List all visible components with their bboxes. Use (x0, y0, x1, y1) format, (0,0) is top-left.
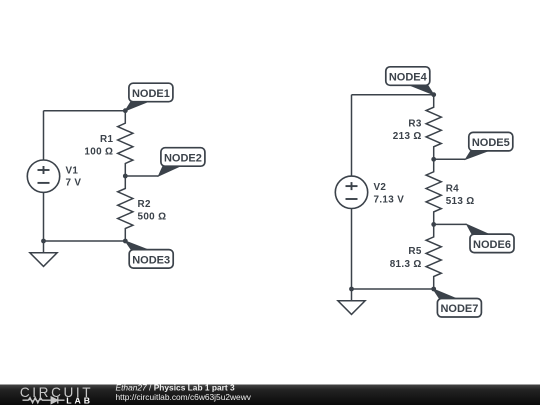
ground right (338, 289, 365, 314)
node junction NODE4 (431, 92, 436, 97)
wire bottom rail right (352, 288, 434, 290)
wire NODE2 stub (125, 175, 158, 177)
label R3 value (393, 118, 422, 142)
resistor R1 (118, 111, 133, 176)
label R2 value (138, 199, 167, 222)
voltage source V2 (335, 176, 367, 208)
svg-text:R3: R3 (408, 118, 421, 129)
svg-text:Ethan27 / Physics Lab 1 part 3: Ethan27 / Physics Lab 1 part 3 (116, 382, 236, 392)
svg-text:V1: V1 (66, 165, 79, 176)
node junction ground-left (41, 239, 46, 244)
label V1 value (66, 165, 82, 188)
node junction R4-R5 (431, 222, 436, 227)
node NODE2 (159, 148, 205, 176)
ground (30, 241, 57, 266)
svg-text:LAB: LAB (66, 395, 93, 405)
svg-text:R4: R4 (446, 183, 459, 194)
resistor R3 (426, 95, 441, 160)
svg-text:81.3 Ω: 81.3 Ω (390, 259, 422, 270)
wire NODE6 stub (434, 223, 467, 225)
svg-text:NODE1: NODE1 (132, 88, 170, 100)
node junction NODE7 (431, 287, 436, 292)
svg-text:R2: R2 (138, 199, 151, 210)
resistor R5 (426, 224, 441, 289)
svg-text:513 Ω: 513 Ω (446, 196, 475, 207)
svg-text:V2: V2 (374, 182, 387, 193)
footer title text (116, 382, 252, 402)
label R1 value (84, 134, 113, 158)
label R4 value (446, 183, 475, 206)
svg-text:NODE7: NODE7 (440, 303, 478, 315)
resistor R2 (118, 176, 133, 241)
resistor R4 (426, 159, 441, 224)
wire right-left rail upper (351, 95, 353, 177)
svg-text:100 Ω: 100 Ω (84, 147, 113, 158)
svg-text:NODE4: NODE4 (389, 72, 428, 84)
wire bottom rail (44, 240, 126, 242)
node junction ground-right (349, 287, 354, 292)
node NODE4 (386, 67, 434, 95)
wire left rail upper (43, 111, 45, 161)
svg-text:7.13 V: 7.13 V (374, 195, 405, 206)
node NODE1 (125, 83, 173, 111)
node junction NODE3 (123, 239, 128, 244)
label V2 value (374, 182, 405, 206)
node junction R3-R4 (431, 157, 436, 162)
svg-text:NODE6: NODE6 (473, 239, 511, 251)
voltage source V1 (27, 160, 59, 192)
node NODE3 (125, 241, 173, 268)
node NODE5 (466, 132, 513, 159)
CircuitLab logo (20, 385, 93, 405)
svg-text:NODE3: NODE3 (132, 254, 170, 266)
footer bar (0, 385, 540, 405)
node NODE6 (467, 224, 514, 252)
svg-text:R1: R1 (100, 134, 113, 145)
node NODE7 (433, 289, 481, 317)
node junction R1-R2 (123, 174, 128, 179)
svg-text:500 Ω: 500 Ω (138, 211, 167, 222)
svg-text:7 V: 7 V (66, 178, 82, 189)
svg-text:213 Ω: 213 Ω (393, 131, 422, 142)
label R5 value (390, 246, 422, 270)
wire top-left rail (44, 110, 126, 112)
svg-text:R5: R5 (408, 246, 421, 257)
svg-text:http://circuitlab.com/c6w63j5u: http://circuitlab.com/c6w63j5u2wewv (116, 392, 252, 402)
svg-text:NODE2: NODE2 (164, 152, 202, 164)
wire left rail lower (43, 192, 45, 241)
svg-text:NODE5: NODE5 (472, 137, 510, 149)
wire right-left rail lower (351, 208, 353, 289)
wire NODE5 stub (434, 158, 466, 160)
wire top rail right (352, 94, 434, 96)
node junction NODE1 (123, 108, 128, 113)
